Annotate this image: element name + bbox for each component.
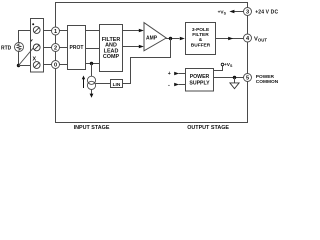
svg-text:+VS: +VS: [218, 10, 227, 16]
wire AMP output to 2-POLE filter: [166, 38, 180, 40]
wire power supply to +Vs terminal: [214, 66, 223, 71]
wire junction to terminal block bottom: [19, 65, 31, 67]
svg-text:-: -: [168, 83, 170, 89]
arrowhead into AMP lower input: [139, 45, 144, 49]
power common triangle: [230, 83, 239, 89]
wire middle screw to pin 2: [44, 47, 52, 49]
pin 2: [52, 44, 60, 52]
svg-text:+: +: [168, 71, 171, 77]
wire FILTER to AMP upper input: [123, 30, 140, 32]
node AMP output: [169, 37, 172, 40]
svg-text:+VS: +VS: [224, 62, 233, 68]
wire PROT to FILTER row B: [86, 48, 100, 50]
node excitation junction: [90, 62, 93, 65]
arrowhead into AMP upper input: [139, 29, 144, 33]
svg-text:OUTPUT STAGE: OUTPUT STAGE: [187, 125, 229, 131]
wire RTD bottom to junction: [18, 52, 20, 66]
dot mark above top screw: [32, 23, 34, 25]
FILTER AND LEAD COMP block: [100, 25, 123, 72]
svg-text:1: 1: [54, 29, 57, 35]
node power common junction: [233, 76, 236, 79]
arrowhead into 2-POLE filter: [180, 37, 185, 41]
pin 3: [244, 8, 252, 16]
svg-text:COMP: COMP: [103, 54, 120, 60]
pin 4: [244, 34, 252, 42]
wire RTD top to terminal block: [19, 31, 31, 43]
wire power supply to pin 5: [214, 77, 244, 79]
svg-text:AMP: AMP: [146, 35, 158, 41]
wire jumper junction to middle screw: [19, 48, 34, 66]
pin 1: [52, 27, 60, 35]
tick mark above middle screw: [31, 39, 33, 41]
op-amp AMP: [144, 23, 166, 51]
pin 0: [52, 61, 60, 69]
arrowhead plus input: [174, 72, 179, 76]
current direction arrow: [82, 76, 85, 89]
current source (interlocked circles): [87, 76, 95, 89]
wire pin 1 to PROT: [60, 30, 68, 32]
wire top screw to pin 1: [44, 30, 52, 32]
terminal block: [31, 19, 44, 73]
svg-text:SUPPLY: SUPPLY: [189, 81, 210, 87]
svg-text:2: 2: [54, 46, 57, 52]
svg-text:POWER: POWER: [190, 74, 210, 80]
wire PROT to FILTER row C: [86, 63, 100, 65]
POWER COMMON label: [256, 74, 279, 85]
svg-text:INPUT STAGE: INPUT STAGE: [74, 125, 110, 131]
node RTD bottom junction: [17, 64, 20, 67]
wire junction down to current source: [91, 64, 93, 77]
wire pin 0 to PROT: [60, 64, 68, 66]
wire pin 2 to PROT: [60, 47, 68, 49]
screw terminal middle: [33, 44, 40, 51]
wire current source to LIN: [96, 83, 111, 85]
svg-text:RTD: RTD: [1, 45, 12, 51]
arrowhead toward +Vs label: [229, 10, 234, 14]
arrowhead on output wire: [228, 37, 233, 41]
svg-text:BUFFER: BUFFER: [191, 43, 211, 49]
arrowhead minus input: [174, 83, 179, 87]
svg-text:5: 5: [246, 76, 249, 82]
svg-text:&: &: [199, 37, 203, 43]
wire minus input to power supply: [179, 84, 186, 86]
wire feedback node to LIN: [123, 39, 171, 84]
return arrow below current source: [90, 90, 94, 98]
wire plus input to power supply: [179, 73, 186, 75]
wire +Vs arrow from pin 3: [233, 11, 244, 13]
wire 2-POLE filter to pin 4: [216, 38, 244, 40]
wire PROT to FILTER row A: [86, 30, 100, 32]
svg-text:+24 V DC: +24 V DC: [255, 10, 278, 16]
svg-text:0: 0: [54, 63, 57, 69]
PROT block U1: [68, 26, 86, 70]
LIN block: [111, 80, 123, 88]
+Vs open terminal: [221, 63, 224, 66]
wire FILTER to AMP lower input: [123, 46, 140, 48]
svg-text:3: 3: [246, 10, 249, 16]
RTD sensor: [15, 43, 24, 52]
wire bottom screw to pin 0: [44, 64, 52, 66]
wire junction to common triangle: [234, 78, 236, 83]
svg-text:COMMON: COMMON: [256, 79, 279, 85]
svg-text:PROT: PROT: [70, 45, 84, 51]
module outline: [56, 3, 248, 123]
POWER SUPPLY block: [186, 69, 214, 92]
pin 5: [244, 74, 252, 82]
svg-text:X: X: [33, 56, 37, 62]
screw terminal top: [33, 27, 40, 34]
svg-text:LIN: LIN: [113, 82, 121, 88]
svg-text:VOUT: VOUT: [254, 36, 267, 42]
screw terminal bottom: [33, 62, 40, 69]
2-POLE FILTER AND BUFFER block: [186, 23, 216, 55]
